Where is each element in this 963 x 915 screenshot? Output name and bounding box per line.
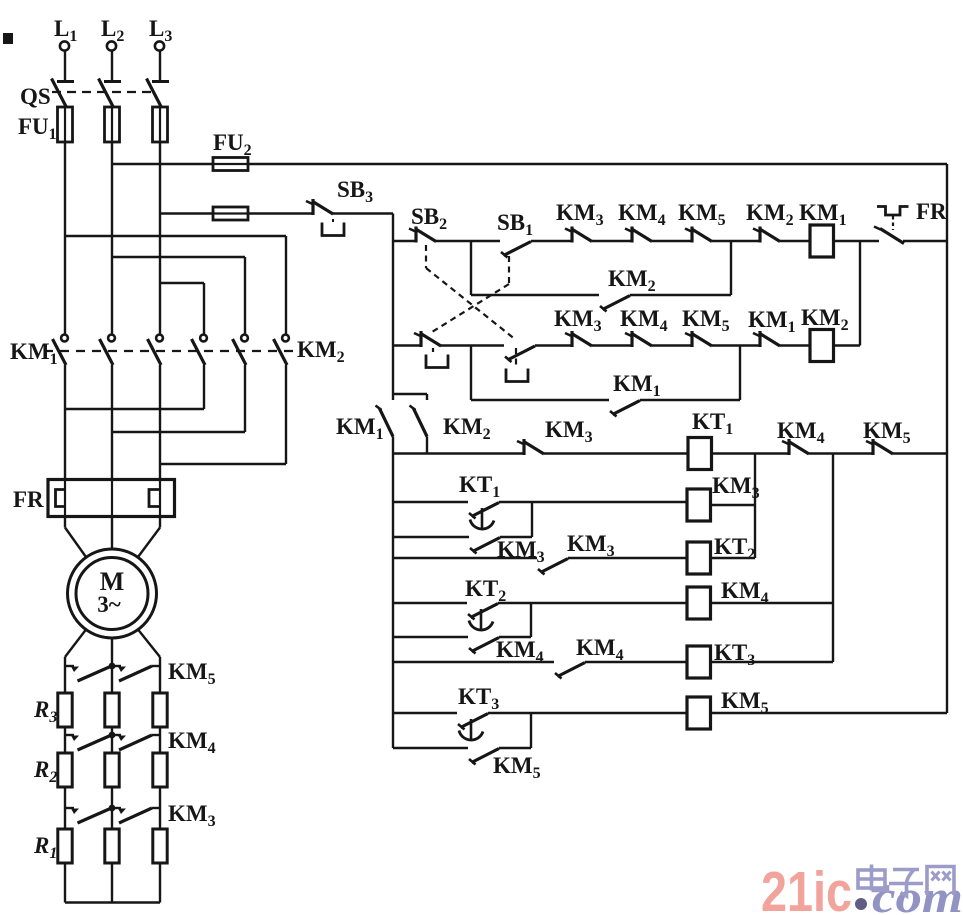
wire node755 down xyxy=(754,454,756,559)
overload relay FR contact xyxy=(874,207,909,244)
contact KM5 NC (rung1) xyxy=(685,227,712,243)
contact KM2 NC (rung1) xyxy=(753,227,780,243)
button cap SB2 xyxy=(506,369,528,382)
coil KM5 xyxy=(687,697,711,729)
wire FR to motor W xyxy=(159,517,161,528)
wire FR to right rail xyxy=(903,240,947,242)
wire rotor line 2 xyxy=(111,666,113,903)
pushbutton SB2 NC contact xyxy=(409,227,436,243)
wire rung2 up to rung1 xyxy=(730,241,732,295)
terminal L2 xyxy=(101,16,124,51)
contact KM5 NO hold (row F) xyxy=(469,749,499,765)
contact KM4 NO hold (row D) xyxy=(469,638,499,654)
coil KM1 xyxy=(810,225,834,257)
contact KM4 NC (rung1) xyxy=(625,227,652,243)
wire rung4 up to rung3 xyxy=(739,346,741,401)
wire row E to coil KT3 xyxy=(585,661,687,663)
wire row E left xyxy=(393,661,554,663)
wire rung3 start xyxy=(393,344,421,346)
wire KM4-KM5 (rung3) xyxy=(652,344,692,346)
wire coil KM2 to rail join xyxy=(834,344,861,346)
wire KM4 hold right xyxy=(499,636,531,638)
wire crossover L2 to KM2 pole5 xyxy=(112,256,245,258)
KM1-KM2 linkage (dashed) xyxy=(44,350,296,352)
wire KM4 to KM5 (row A), node 833 xyxy=(809,452,873,454)
overload relay FR heaters xyxy=(48,480,175,518)
wire row C to coil KT2 xyxy=(568,557,687,559)
contact KM5 NC (row A) xyxy=(866,439,893,455)
wire coil KM3 to node755 xyxy=(711,504,756,506)
wire top control line xyxy=(112,163,213,165)
wire KT2 contact to corner xyxy=(498,602,531,604)
wire row B to coil KM3 xyxy=(532,501,687,503)
fuse FU1 at x=65 xyxy=(58,107,73,142)
wire KM3-KM4 (rung3) xyxy=(592,344,632,346)
contact KT1 delayed NO xyxy=(469,503,499,530)
contact KT3 delayed NO xyxy=(458,714,488,741)
coil KT1 xyxy=(688,438,712,470)
wire crossover L1 to KM2 pole6 xyxy=(65,235,286,237)
resistor R3 (three phase) xyxy=(58,693,167,727)
svg-text:QS: QS xyxy=(20,84,51,109)
wire L1 feeder xyxy=(64,142,66,335)
wire node833 down xyxy=(832,454,834,663)
terminal L1 xyxy=(54,16,77,51)
contact KM1 NO (vertical) xyxy=(376,406,394,437)
wire coil KT3 to node833 xyxy=(711,661,834,663)
contact KM4 NO (row E) xyxy=(555,663,585,679)
contactor KM2 main pole 6 xyxy=(274,335,289,365)
button cap SB1 xyxy=(426,355,448,368)
watermark 电子网 xyxy=(858,865,954,897)
wire KM3-KM4 (rung1) xyxy=(592,240,632,242)
wire KM3 hold left xyxy=(393,536,469,538)
contactor KM1 main pole 3 xyxy=(148,335,163,365)
wire rung1 start xyxy=(393,240,416,242)
contact KM3 NO hold (row B) xyxy=(470,538,500,554)
contact KM3 NO (row C) xyxy=(538,559,568,575)
fuse FU1 at x=112 xyxy=(105,107,120,142)
scan mark xyxy=(3,33,13,44)
wire coil KM4 to node833 xyxy=(711,602,834,604)
motor M 3~ xyxy=(68,549,157,638)
wire rung4 right xyxy=(640,399,740,401)
watermark 21ic.com xyxy=(761,860,963,915)
disconnect switch QS pole 2 xyxy=(99,50,122,107)
wire motor rotor 3 xyxy=(138,630,160,658)
wire SB2 to node xyxy=(435,240,500,242)
wire row F to coil KM5 xyxy=(531,712,687,714)
wire SB1 to KM3 xyxy=(531,240,572,242)
wire left control bus xyxy=(392,214,394,401)
wire node rung1 down to rung2 xyxy=(470,241,472,295)
contact KM2 NO (vertical) xyxy=(410,406,428,437)
wire KM3 hold right xyxy=(500,536,532,538)
wire corner down to KM5 hold xyxy=(530,713,532,748)
wire KM2 pole5 return xyxy=(244,365,246,432)
wire node rung3 down to rung4 xyxy=(470,346,472,401)
contact KM1 NC (rung3) xyxy=(753,331,780,347)
resistor R2 (three phase) xyxy=(58,753,167,787)
wire lower control line to SB3 xyxy=(160,212,213,214)
coil KT3 xyxy=(687,646,711,678)
wire KM2 to coil KM1 xyxy=(780,240,810,242)
SB2 mechanical link (dashed cross) xyxy=(425,245,427,268)
svg-text:21ic: 21ic xyxy=(761,860,852,915)
wire rotor line 3 xyxy=(159,666,161,903)
contactor KM2 main pole 5 xyxy=(233,335,248,365)
fuse FU1 at x=160 xyxy=(153,107,168,142)
wire coil KM5 to right rail xyxy=(711,712,948,714)
wire rotor star point xyxy=(65,901,160,903)
contact KM2 NO self-hold xyxy=(600,296,630,312)
wire row B left xyxy=(393,501,468,503)
terminal L3 xyxy=(149,16,172,51)
contactor KM1 main pole 2 xyxy=(100,335,115,365)
contact KM5 rotor shorting row xyxy=(65,663,160,681)
wire motor rotor 2 xyxy=(111,638,113,666)
pushbutton SB2 NO contact (rung3) xyxy=(505,346,535,362)
coil KT2 xyxy=(687,542,711,574)
contact KT2 delayed NO xyxy=(468,604,498,631)
wire right supply rail xyxy=(946,164,948,713)
wire KM4 hold left xyxy=(393,636,468,638)
disconnect switch QS pole 1 xyxy=(52,50,75,107)
wire rung4 left xyxy=(471,399,609,401)
contact KM4 NC (row A) xyxy=(782,439,809,455)
wire SB3 to control bus xyxy=(332,212,393,214)
wire FR to motor V xyxy=(111,517,113,550)
contact KM4 rotor shorting row xyxy=(65,732,160,750)
wire KM5 to KM1 (rung3), node at 740 xyxy=(712,344,760,346)
wire KM3 to coil KT1 xyxy=(544,452,688,454)
wire KM5 hold right xyxy=(499,747,531,749)
resistor R1 (three phase) xyxy=(58,829,167,863)
wire rung2 right xyxy=(630,294,731,296)
disconnect switch QS pole 3 xyxy=(147,50,170,107)
wire KM1 to coil KM2 xyxy=(780,344,810,346)
contact KM5 NC (rung3) xyxy=(685,331,712,347)
wire rung2 left xyxy=(471,294,599,296)
coil KM4 xyxy=(687,587,711,619)
wire L3 feeder xyxy=(159,142,161,335)
wire coil KT2 to node755 xyxy=(711,557,756,559)
wire row D left xyxy=(393,602,467,604)
svg-text:3~: 3~ xyxy=(97,592,121,617)
coil KM3 xyxy=(687,489,711,521)
wire corner down to KM4 hold xyxy=(530,603,532,637)
contactor KM2 main pole 4 xyxy=(192,335,207,365)
contactor KM1 main pole 1 xyxy=(53,335,68,365)
wire row C left xyxy=(393,557,537,559)
SB1 mechanical link (dashed cross) xyxy=(508,256,510,284)
wire SB2no to KM3 (rung3) xyxy=(535,344,572,346)
pushbutton SB1 NO contact xyxy=(501,242,531,258)
wire coil KM1 to FR xyxy=(834,240,880,242)
fuse FU2 upper xyxy=(213,158,248,171)
wire coil KM2 up to rung1 xyxy=(859,241,861,346)
wire FR to motor U xyxy=(64,517,66,528)
stop button SB3 xyxy=(306,199,344,236)
contact KM4 NC (rung3) xyxy=(625,331,652,347)
wire coil KT1 to KM4, node 755 xyxy=(712,452,790,454)
pushbutton SB1 NC contact (rung3) xyxy=(414,331,441,347)
contact KM3 rotor shorting row xyxy=(65,805,160,823)
QS linkage (dashed) xyxy=(52,91,152,93)
wire motor rotor 1 xyxy=(65,630,86,658)
wire corner down to KM3 hold xyxy=(531,502,533,537)
wire branch to KM2 contact xyxy=(393,393,427,395)
contact KM3 NC (rung1) xyxy=(565,227,592,243)
wire KM5 hold left xyxy=(393,747,468,749)
wire row F left xyxy=(393,712,457,714)
wire KM2 pole6 return xyxy=(285,365,287,464)
fuse FU2 lower xyxy=(213,207,248,220)
wire row D to coil KM4 xyxy=(531,602,687,604)
svg-text:FR: FR xyxy=(916,199,947,224)
wire KM5 to right rail xyxy=(893,452,947,454)
wire KM4-KM5 (rung1) xyxy=(652,240,692,242)
contact KM3 NC (rung3) xyxy=(565,331,592,347)
wire KT3 contact to corner xyxy=(488,712,531,714)
wire row A left xyxy=(393,452,524,454)
wire L2 feeder xyxy=(111,142,113,335)
wire KM2 contact to row A xyxy=(426,437,428,454)
wire KM5 to KM2 (rung1), node at 731 xyxy=(712,240,760,242)
coil KM2 xyxy=(810,330,834,362)
wire crossover L3 to KM2 pole4 xyxy=(160,282,204,284)
contact KM3 (row A) xyxy=(517,439,544,455)
wire SB1nc to node471 xyxy=(440,344,504,346)
wire rotor line 1 xyxy=(64,666,66,903)
contact KM1 NO self-hold xyxy=(610,401,640,417)
svg-text:FR: FR xyxy=(13,487,44,512)
wire KT1 contact to corner xyxy=(499,501,532,503)
wire KM2 pole4 return xyxy=(203,365,205,409)
